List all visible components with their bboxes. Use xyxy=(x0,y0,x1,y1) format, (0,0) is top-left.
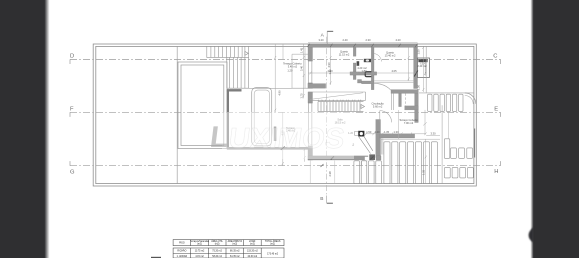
bedroom wing top wall xyxy=(308,44,418,47)
dim chain mid wing xyxy=(308,72,418,74)
corridor window xyxy=(392,93,394,110)
interior wall bedroom1/bath xyxy=(353,47,356,56)
svg-text:1.35: 1.35 xyxy=(384,130,390,134)
kitchen bottom wall xyxy=(376,156,381,160)
dim line west terrace xyxy=(303,44,305,98)
svg-text:13.75 m2: 13.75 m2 xyxy=(195,251,205,253)
dim line deck xyxy=(425,139,427,184)
svg-text:2.30: 2.30 xyxy=(365,38,371,42)
dim chain top of house xyxy=(308,42,418,44)
table body box xyxy=(173,248,284,258)
svg-text:86.35 m2: 86.35 m2 xyxy=(230,251,240,253)
external stair upper flight xyxy=(207,46,249,57)
svg-text:1.20: 1.20 xyxy=(374,130,380,134)
pool outer rim xyxy=(178,62,227,149)
property boundary inner line xyxy=(96,46,474,183)
wall notch xyxy=(365,157,369,160)
svg-text:(m2): (m2) xyxy=(232,243,237,245)
bath shower xyxy=(357,61,360,66)
svg-text:173.40 m2: 173.40 m2 xyxy=(267,253,279,255)
bedroom wing left wall lower xyxy=(308,83,313,88)
svg-text:1.50: 1.50 xyxy=(417,49,421,55)
svg-text:C: C xyxy=(493,54,497,60)
dim chain kitchen xyxy=(366,133,426,135)
svg-text:1.45: 1.45 xyxy=(300,47,304,53)
svg-text:R/CHÃO: R/CHÃO xyxy=(177,250,186,253)
sala bottom wall xyxy=(308,156,368,160)
svg-text:7.00 m2: 7.00 m2 xyxy=(404,121,414,125)
stove xyxy=(358,131,364,137)
property boundary outer line xyxy=(93,44,476,186)
pantry left wall xyxy=(399,93,402,106)
svg-text:3.40 m2: 3.40 m2 xyxy=(288,64,298,68)
interior stair block top xyxy=(308,92,366,100)
svg-text:2.38: 2.38 xyxy=(328,171,332,177)
SE terrace west line xyxy=(425,46,427,93)
bath door arc xyxy=(374,54,382,62)
tick crossing G xyxy=(321,164,324,167)
interior stair arrow xyxy=(361,105,365,109)
kerb line xyxy=(474,129,476,158)
pool inner rim xyxy=(181,65,224,146)
svg-text:2.40 m2: 2.40 m2 xyxy=(417,64,427,68)
section marker B xyxy=(327,202,333,204)
svg-text:G: G xyxy=(70,170,75,176)
dim line terrace east xyxy=(423,110,427,135)
pantry top wall xyxy=(391,90,418,94)
bath south wall xyxy=(350,72,377,75)
dim line step xyxy=(304,148,306,162)
carport comb slots xyxy=(428,94,463,111)
ensuite door tick xyxy=(414,71,418,77)
svg-text:1.75: 1.75 xyxy=(300,93,304,99)
pantry bottom wall xyxy=(405,106,419,110)
svg-text:2.40: 2.40 xyxy=(342,38,348,42)
svg-text:PISO: PISO xyxy=(179,242,185,244)
left sidebar xyxy=(0,0,45,258)
planter xyxy=(252,88,272,146)
svg-text:(m2): (m2) xyxy=(250,243,255,245)
watermark veil xyxy=(222,112,354,159)
bedroom window west xyxy=(308,61,313,83)
dim line bedroom2 xyxy=(408,47,410,81)
svg-text:133.20 m2: 133.20 m2 xyxy=(247,251,259,253)
svg-text:3.20: 3.20 xyxy=(318,38,324,42)
svg-text:(m2): (m2) xyxy=(270,243,275,245)
svg-text:4.90: 4.90 xyxy=(327,62,331,68)
svg-text:1.55: 1.55 xyxy=(422,169,426,175)
svg-text:11.15 m2: 11.15 m2 xyxy=(339,53,350,57)
grid line D-C xyxy=(70,59,501,64)
ensuite dim line xyxy=(424,61,426,75)
corridor wall stub xyxy=(358,80,362,84)
stair direction arrow xyxy=(245,51,249,55)
dim line top-right xyxy=(426,134,440,136)
sala window west xyxy=(308,103,313,146)
parking squares row1 xyxy=(451,148,473,158)
SE terrace bottom line xyxy=(419,92,474,94)
ensuite room outline xyxy=(417,58,429,77)
sala left wall lower xyxy=(308,146,313,160)
external stair side flight xyxy=(227,46,249,88)
bedroom wing right wall xyxy=(414,47,418,88)
bedroom2 south window xyxy=(374,81,414,83)
deck slats short group xyxy=(354,161,382,184)
bath toilet xyxy=(365,72,371,77)
right sidebar bump xyxy=(529,227,534,243)
extension verticals xyxy=(310,161,362,184)
walkway line xyxy=(227,87,308,89)
driveway curve xyxy=(465,93,476,104)
bottom edge mark xyxy=(151,257,161,258)
dark pillar xyxy=(369,154,375,160)
wall dim arrows xyxy=(331,156,374,159)
dim line west 4.90 xyxy=(274,44,276,112)
bedroom wing left wall upper xyxy=(308,47,313,61)
svg-text:4.90: 4.90 xyxy=(277,90,281,96)
section line A-B xyxy=(326,37,328,195)
corridor wall horizontal xyxy=(362,81,374,84)
dim line bedroom1 xyxy=(330,47,332,85)
svg-text:75.20 m2: 75.20 m2 xyxy=(212,251,222,253)
sala left wall upper xyxy=(308,92,313,103)
parking squares row2 xyxy=(444,168,473,178)
svg-text:1.80: 1.80 xyxy=(361,69,367,73)
bedroom wing bottom-left wall xyxy=(308,84,326,89)
kitchen window lines xyxy=(381,138,383,154)
yard dividing line xyxy=(176,46,178,183)
retaining wall top xyxy=(227,89,242,91)
sala right wall xyxy=(376,120,381,158)
interior stair treads xyxy=(318,102,364,112)
kitchen interior line xyxy=(397,110,399,139)
svg-text:(m2): (m2) xyxy=(197,243,202,245)
right sidebar xyxy=(534,0,579,258)
left terrace outline xyxy=(292,47,308,88)
interior wall bath/bedroom2 xyxy=(371,47,374,89)
stove side box xyxy=(355,131,359,135)
svg-text:4.05: 4.05 xyxy=(391,69,397,73)
svg-text:13.40 m2: 13.40 m2 xyxy=(385,54,396,58)
svg-text:1.30: 1.30 xyxy=(393,130,399,134)
svg-text:1.50: 1.50 xyxy=(417,84,421,90)
grid line F-E xyxy=(70,112,501,117)
svg-text:4.20: 4.20 xyxy=(395,38,401,42)
terrace slab edge xyxy=(227,147,309,150)
svg-text:3.30: 3.30 xyxy=(430,132,436,136)
svg-text:B: B xyxy=(320,196,323,202)
table header box xyxy=(173,240,284,246)
dark pillar by planter xyxy=(274,127,277,142)
svg-text:F: F xyxy=(70,106,74,112)
grid line G-H xyxy=(70,161,501,166)
svg-text:1.40: 1.40 xyxy=(328,69,332,75)
tall parking slot xyxy=(444,139,450,159)
section marker A xyxy=(327,30,333,32)
pantry right wall xyxy=(415,93,419,122)
terrace slab step xyxy=(308,147,311,157)
pantry door dashed xyxy=(405,93,407,106)
svg-text:E: E xyxy=(494,107,498,113)
deck slats tall group xyxy=(384,142,438,184)
bath sink xyxy=(364,59,371,62)
dim line slab xyxy=(282,112,284,165)
chimney diagonals xyxy=(359,137,373,154)
svg-text:(m2): (m2) xyxy=(215,243,220,245)
door arc corridor xyxy=(374,83,391,90)
interior stair diagonal xyxy=(310,93,363,100)
svg-text:1.20: 1.20 xyxy=(287,68,293,72)
svg-text:1.50: 1.50 xyxy=(366,130,372,134)
retaining wall xyxy=(227,90,229,148)
dim line SE terrace xyxy=(422,46,424,92)
door arc sala xyxy=(380,111,392,123)
svg-text:D: D xyxy=(70,54,74,60)
driveway lane lines xyxy=(441,105,443,183)
extension line xyxy=(282,44,284,59)
svg-text:H: H xyxy=(494,169,498,175)
svg-text:3.40: 3.40 xyxy=(300,65,304,71)
ensuite counter xyxy=(418,59,427,62)
svg-text:UXIMOS: UXIMOS xyxy=(227,123,346,155)
kitchen counter wall xyxy=(380,134,415,138)
deck top line xyxy=(381,138,440,140)
svg-text:5.60 m2: 5.60 m2 xyxy=(373,104,383,108)
